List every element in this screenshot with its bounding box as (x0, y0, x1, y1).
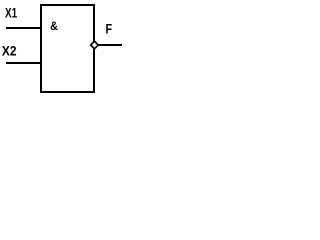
svg-text:X1: X1 (5, 5, 18, 20)
wire input X1 (6, 27, 41, 29)
svg-text:F: F (106, 20, 113, 36)
wire output F (98, 44, 122, 46)
svg-text:&: & (50, 19, 58, 33)
svg-text:X2: X2 (2, 44, 17, 59)
inversion bubble (diamond) (91, 41, 99, 49)
gate body U1 (AND rectangle) (41, 5, 94, 92)
wire input X2 (6, 62, 41, 64)
